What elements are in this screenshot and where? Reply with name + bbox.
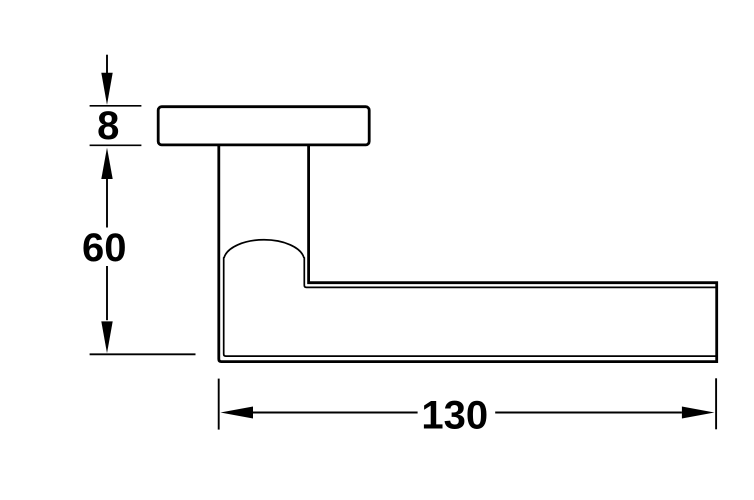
svg-text:8: 8 — [97, 104, 119, 148]
svg-text:60: 60 — [82, 226, 127, 270]
svg-text:130: 130 — [421, 393, 488, 437]
